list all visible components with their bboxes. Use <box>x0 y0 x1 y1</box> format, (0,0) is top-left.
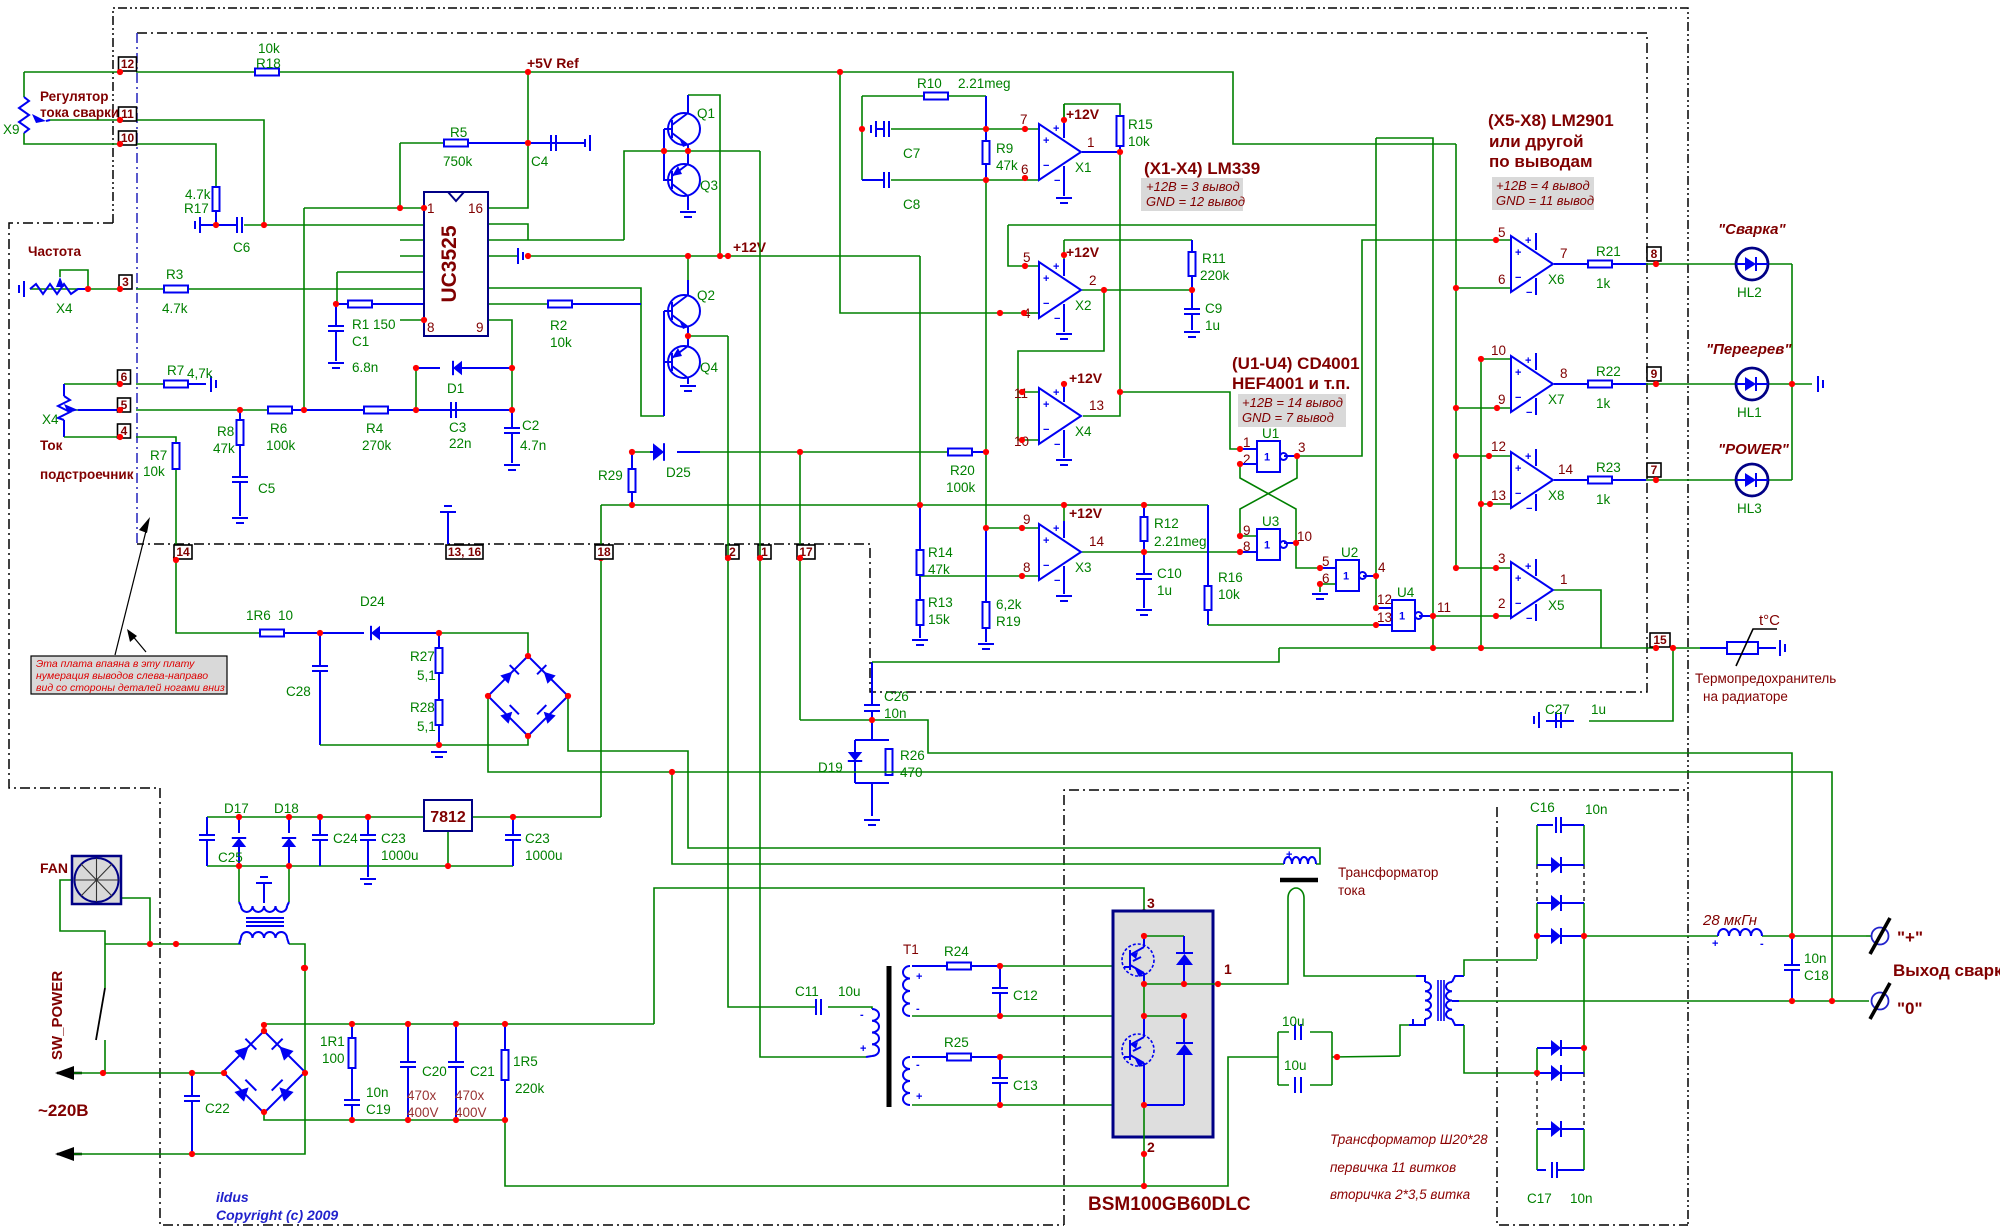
potentiometer X9 <box>19 97 29 133</box>
ground below C10 <box>1136 610 1152 615</box>
capacitor C18 <box>1791 936 1793 965</box>
svg-text:R9: R9 <box>996 141 1013 156</box>
wire C23a leads <box>367 817 369 835</box>
wire transformer primary bottom link <box>1400 1025 1409 1056</box>
output jack plus <box>1866 935 1871 937</box>
ground below R26 D19 <box>864 820 880 825</box>
T1 primary coil <box>872 1009 879 1056</box>
wire X3 pin9 <box>986 527 1039 529</box>
diode stack upper 2 <box>1551 895 1561 911</box>
svg-text:9: 9 <box>1651 367 1658 381</box>
wire D17 D18 7812 input line <box>207 816 424 818</box>
wire main bridge minus bus <box>264 1112 505 1120</box>
svg-text:R2: R2 <box>550 318 567 333</box>
svg-text:U1: U1 <box>1262 426 1279 441</box>
wire small bridge left to zero column <box>488 696 1832 1001</box>
svg-text:Трансформатор Ш20*28: Трансформатор Ш20*28 <box>1330 1132 1488 1147</box>
svg-text:6: 6 <box>1021 162 1029 177</box>
junction dots comparator area <box>598 117 1795 915</box>
svg-text:4.7n: 4.7n <box>520 438 546 453</box>
svg-text:16: 16 <box>468 201 483 216</box>
wire C27 line <box>1589 648 1673 721</box>
svg-text:10n: 10n <box>1585 802 1608 817</box>
wire R27 R28 branch <box>438 633 440 648</box>
connector 17 <box>797 545 815 559</box>
transistor Q1 <box>668 113 700 145</box>
wire X3 output net <box>1082 551 1257 553</box>
svg-text:R12: R12 <box>1154 516 1179 531</box>
svg-text:R6: R6 <box>270 421 287 436</box>
resistor R1 <box>348 301 372 308</box>
wire pin15 pin13 +12V jog <box>488 224 528 240</box>
svg-text:C16: C16 <box>1530 800 1555 815</box>
connector 10 <box>119 131 137 145</box>
wire X4 current pot leads <box>63 384 65 396</box>
svg-text:6,2k: 6,2k <box>996 597 1022 612</box>
svg-text:C11: C11 <box>795 984 819 999</box>
wire X5 output to thermal row <box>1554 590 1601 648</box>
svg-text:+: + <box>1525 235 1531 247</box>
svg-text:R17: R17 <box>184 201 209 216</box>
svg-text:1: 1 <box>1264 540 1270 552</box>
wire Q2 collector stub <box>687 256 689 280</box>
svg-text:5: 5 <box>1023 250 1031 265</box>
diode D1 <box>453 361 462 375</box>
resistor R27 <box>436 648 443 673</box>
svg-text:подстроечник: подстроечник <box>40 467 134 482</box>
svg-text:3: 3 <box>122 275 129 289</box>
connector 1 <box>758 545 771 559</box>
svg-text:(X1-X4) LM339: (X1-X4) LM339 <box>1144 159 1260 178</box>
svg-text:C9: C9 <box>1205 301 1222 316</box>
IC U5 UC3525 <box>424 192 488 336</box>
wire C9 lead <box>1191 290 1193 309</box>
svg-text:+12V: +12V <box>1069 370 1103 386</box>
svg-text:8: 8 <box>1560 366 1568 381</box>
ground right of HL1 <box>1818 376 1823 392</box>
svg-text:-: - <box>1760 938 1764 950</box>
svg-text:11: 11 <box>121 107 134 121</box>
aux transformer <box>239 902 241 906</box>
wire R29 bottom to rail <box>631 492 633 505</box>
svg-text:R3: R3 <box>166 267 183 282</box>
wire 1R5 branch <box>504 1024 506 1050</box>
wire plus rail column <box>1583 936 1585 1048</box>
resistor 1R5 <box>502 1050 509 1080</box>
wire R7 trimmer line conn6 <box>64 383 120 385</box>
svg-text:"Перегрев": "Перегрев" <box>1706 341 1792 358</box>
svg-text:+: + <box>916 971 922 983</box>
svg-text:(U1-U4) CD4001: (U1-U4) CD4001 <box>1232 354 1360 373</box>
svg-text:400V: 400V <box>407 1105 439 1120</box>
svg-text:R29: R29 <box>598 468 623 483</box>
svg-text:C12: C12 <box>1013 988 1038 1003</box>
svg-text:220k: 220k <box>1200 268 1230 283</box>
svg-text:+: + <box>860 1043 866 1055</box>
BSM100GB60DLC module box <box>1113 911 1213 1137</box>
svg-text:C4: C4 <box>531 154 549 169</box>
op-amp X3 <box>1039 524 1081 580</box>
svg-text:X2: X2 <box>1075 298 1092 313</box>
note board soldering note box <box>31 656 227 694</box>
svg-text:X8: X8 <box>1548 488 1565 503</box>
svg-text:R25: R25 <box>944 1035 969 1050</box>
svg-text:10k: 10k <box>258 41 280 56</box>
logic gate U3 <box>1257 529 1280 560</box>
svg-text:U3: U3 <box>1262 514 1279 529</box>
svg-text:6.8n: 6.8n <box>352 360 378 375</box>
svg-text:X6: X6 <box>1548 272 1565 287</box>
wire C10 branch <box>1143 552 1145 574</box>
connector 5 <box>118 398 131 412</box>
resistor R19 <box>983 602 990 628</box>
wire phase output node <box>1144 983 1228 985</box>
resistor R4 <box>364 407 388 414</box>
svg-text:T1: T1 <box>903 942 919 957</box>
svg-text:18: 18 <box>597 545 611 559</box>
wire conn1 column to T1 return <box>759 151 761 558</box>
svg-text:R1 150: R1 150 <box>352 317 396 332</box>
svg-text:400V: 400V <box>455 1105 487 1120</box>
capacitor C6 <box>195 217 200 233</box>
svg-text:+12V: +12V <box>1069 505 1103 521</box>
svg-text:1k: 1k <box>1596 276 1611 291</box>
svg-text:1: 1 <box>427 201 435 216</box>
wire X6 pin6 row <box>1456 287 1511 289</box>
svg-text:2: 2 <box>1498 596 1506 611</box>
wire R8 C5 branch <box>239 410 241 420</box>
wire X7 pin10 row <box>1481 358 1511 360</box>
svg-text:HL1: HL1 <box>1737 405 1762 420</box>
svg-text:13: 13 <box>1491 488 1506 503</box>
frame outer left and bottom border <box>9 223 1688 1225</box>
svg-text:−: − <box>1043 298 1049 310</box>
resistor R18 <box>255 69 279 76</box>
wire X6 output to HL2 <box>1554 263 1588 265</box>
svg-text:D1: D1 <box>447 381 464 396</box>
svg-text:10u: 10u <box>838 984 861 999</box>
svg-text:C6: C6 <box>233 240 250 255</box>
svg-text:13: 13 <box>1089 398 1104 413</box>
wire C23b leads <box>512 817 514 835</box>
svg-text:6: 6 <box>1322 571 1330 586</box>
connector 13 16 <box>446 545 483 559</box>
arrow mains bottom <box>57 1153 82 1156</box>
diode stack lower 2 <box>1551 1065 1561 1081</box>
svg-text:+: + <box>1053 387 1059 399</box>
svg-text:14: 14 <box>1558 462 1574 477</box>
svg-text:2: 2 <box>1089 273 1097 288</box>
svg-text:-: - <box>916 1059 920 1071</box>
transformer T1 core <box>887 966 892 1107</box>
svg-text:1: 1 <box>1343 571 1349 583</box>
svg-text:10: 10 <box>1297 529 1312 544</box>
svg-text:15k: 15k <box>928 612 950 627</box>
svg-text:~220В: ~220В <box>38 1101 89 1120</box>
bridge rectifier small <box>488 656 568 736</box>
wire R24 gate line <box>912 965 947 967</box>
svg-text:C18: C18 <box>1804 968 1829 983</box>
svg-text:−: − <box>1054 575 1060 587</box>
connector 12 <box>119 57 137 71</box>
svg-text:вид со стороны деталей ногами: вид со стороны деталей ногами вниз <box>36 682 225 694</box>
wire IGBT collector net <box>1143 936 1145 947</box>
svg-text:первичка 11 витков: первичка 11 витков <box>1330 1160 1456 1175</box>
svg-text:1R5: 1R5 <box>513 1054 538 1069</box>
svg-text:по выводам: по выводам <box>1489 152 1593 171</box>
svg-text:t°C: t°C <box>1759 612 1780 629</box>
resistor R16 <box>1205 586 1212 610</box>
svg-text:C26: C26 <box>884 689 909 704</box>
wire X2 pin5 net <box>1008 224 1376 226</box>
frame inner PCB card border <box>137 33 1647 692</box>
diode stack upper 3 <box>1551 928 1561 944</box>
svg-text:10k: 10k <box>550 335 572 350</box>
wire X9 to connectors 11 10 <box>50 119 120 121</box>
svg-text:нумерация выводов слева-направ: нумерация выводов слева-направо <box>36 670 208 682</box>
capacitor C13 <box>992 1078 1008 1083</box>
svg-text:C3: C3 <box>449 420 466 435</box>
svg-text:+12V: +12V <box>733 239 767 255</box>
wire X4 freq wiper loop <box>60 270 88 289</box>
svg-text:750k: 750k <box>443 154 473 169</box>
svg-text:4.7k: 4.7k <box>162 301 188 316</box>
wire secondary bottom to lower stack <box>1464 1025 1537 1073</box>
svg-text:C27: C27 <box>1545 702 1570 717</box>
wire D18 leads <box>288 817 290 833</box>
svg-text:+: + <box>1515 573 1521 585</box>
svg-text:7: 7 <box>1020 112 1028 127</box>
svg-text:C2: C2 <box>522 418 539 433</box>
svg-text:5,1: 5,1 <box>417 719 436 734</box>
svg-text:9: 9 <box>1498 392 1506 407</box>
wire conn17 to C26 node <box>800 719 872 721</box>
svg-text:+: + <box>1043 135 1049 147</box>
capacitor C2 <box>504 428 520 433</box>
svg-text:C22: C22 <box>205 1101 230 1116</box>
svg-text:10: 10 <box>278 608 293 623</box>
op-amp X8 <box>1511 452 1553 508</box>
wire X8 pin12 row <box>1456 455 1511 457</box>
resistor R7 trimmer 4.7k <box>164 381 188 388</box>
resistor R23 <box>1588 477 1612 484</box>
svg-text:+: + <box>1043 273 1049 285</box>
wire HL column <box>1791 264 1793 480</box>
svg-text:U4: U4 <box>1397 585 1415 600</box>
resistor R6 <box>268 407 292 414</box>
svg-text:GND = 12 вывод: GND = 12 вывод <box>1146 194 1245 209</box>
svg-text:1u: 1u <box>1205 318 1220 333</box>
transistor Q4 <box>668 346 700 378</box>
svg-text:X4: X4 <box>56 301 73 316</box>
wire aux primary right <box>289 944 305 1073</box>
wire +5V Ref net <box>24 71 120 73</box>
wire mains to switch line <box>105 943 241 945</box>
svg-text:HEF4001 и т.п.: HEF4001 и т.п. <box>1232 374 1350 393</box>
svg-text:9: 9 <box>476 320 484 335</box>
wire X7 output to HL1 <box>1554 383 1588 385</box>
wire 7812 output line <box>472 816 601 818</box>
svg-text:X5: X5 <box>1548 598 1565 613</box>
wire C26 node to plus column <box>872 720 1792 936</box>
svg-text:R5: R5 <box>450 125 467 140</box>
svg-text:1000u: 1000u <box>525 848 563 863</box>
svg-text:1: 1 <box>1224 961 1232 977</box>
diode D24 <box>371 626 380 640</box>
svg-text:C5: C5 <box>258 481 275 496</box>
svg-text:+: + <box>1053 261 1059 273</box>
svg-text:−: − <box>1054 313 1060 325</box>
wire pin9 to D1 C3 <box>488 320 512 410</box>
svg-text:−: − <box>1526 407 1532 419</box>
svg-text:HL2: HL2 <box>1737 285 1762 300</box>
wire C26 D19 R26 branch <box>871 711 873 740</box>
wire +12V rail <box>528 255 920 257</box>
svg-text:−: − <box>1515 392 1521 404</box>
note arrow long <box>115 523 148 655</box>
svg-text:Эта плата впаяна в эту плату: Эта плата впаяна в эту плату <box>36 658 195 670</box>
wire C24 leads <box>319 817 321 835</box>
frame inner PCB card left edge <box>136 33 138 544</box>
svg-text:X1: X1 <box>1075 160 1092 175</box>
upper diode stack rails <box>1536 825 1538 865</box>
wire X2 +12V stub <box>1063 240 1065 262</box>
svg-text:11: 11 <box>1437 600 1451 615</box>
potentiometer X4 current <box>58 396 70 420</box>
ground above connector 13 16 <box>447 512 449 544</box>
resistor R24 <box>947 963 971 970</box>
wire R6 R4 C3 line <box>70 409 120 411</box>
connector 15 <box>1650 633 1670 647</box>
IC 7812 regulator <box>424 800 472 831</box>
wire fan right lead <box>121 898 150 944</box>
svg-text:10u: 10u <box>1282 1014 1305 1029</box>
svg-text:C23: C23 <box>381 831 406 846</box>
wire U1 U3 cross latch <box>1240 456 1297 536</box>
diode stack lower 3 <box>1551 1121 1561 1137</box>
svg-text:R13: R13 <box>928 595 953 610</box>
wire U4 output row to X5 pin2 <box>1419 615 1433 617</box>
wire aux rectifier bottom line <box>207 865 513 867</box>
resistor R8 <box>237 420 244 445</box>
svg-text:220k: 220k <box>515 1081 545 1096</box>
bridge rectifier main <box>223 1031 305 1113</box>
wire R5 C4 pin16 net <box>400 142 444 144</box>
svg-text:Copyright (c) 2009: Copyright (c) 2009 <box>216 1207 338 1223</box>
capacitor C12 <box>992 988 1008 993</box>
svg-text:GND = 11 вывод: GND = 11 вывод <box>1496 193 1594 208</box>
ground below R28 <box>431 752 447 757</box>
wire C6 line to UC3525 pin2 <box>200 224 216 226</box>
wire +12V lower rail <box>601 504 1208 506</box>
svg-text:D18: D18 <box>274 801 299 816</box>
svg-text:12: 12 <box>1491 439 1506 454</box>
resistor R7 10k vertical <box>173 443 180 469</box>
wire OutA to Q2 Q4 bases <box>488 288 664 416</box>
lower diode stack rails <box>1536 1048 1538 1073</box>
ground below Q4 <box>680 386 696 391</box>
svg-text:R7: R7 <box>150 448 167 463</box>
svg-text:−: − <box>1515 272 1521 284</box>
ground below U2 pin6 <box>1312 594 1328 599</box>
wire lower return line <box>912 1104 1144 1106</box>
wire R12 branch <box>1143 505 1145 517</box>
svg-text:+: + <box>1525 561 1531 573</box>
logic gate U1 <box>1257 441 1280 472</box>
connector 11 <box>119 107 137 121</box>
svg-text:D17: D17 <box>224 801 249 816</box>
svg-text:+: + <box>1515 367 1521 379</box>
wire Q2 Q4 output to conn2 column <box>688 335 728 337</box>
snubber capacitor pair 10u <box>1278 1032 1332 1085</box>
svg-text:"POWER": "POWER" <box>1718 441 1790 458</box>
ground below C5 <box>232 518 248 523</box>
svg-text:13: 13 <box>1377 610 1392 625</box>
wire C28 R28 bottom line <box>320 744 439 746</box>
wire R7 to connector 14 <box>175 469 177 558</box>
svg-text:X9: X9 <box>3 122 20 137</box>
svg-text:C17: C17 <box>1527 1191 1552 1206</box>
svg-text:R10: R10 <box>917 76 942 91</box>
svg-text:28 мкГн: 28 мкГн <box>1702 912 1757 929</box>
svg-text:C21: C21 <box>470 1064 495 1079</box>
note arrow short <box>131 634 146 652</box>
wire C25 leads <box>206 817 208 835</box>
wire R11 top <box>1064 239 1192 241</box>
ground below Q3 <box>680 212 696 217</box>
svg-text:+: + <box>1053 123 1059 135</box>
svg-text:R21: R21 <box>1596 244 1621 259</box>
svg-text:"0": "0" <box>1897 999 1923 1018</box>
svg-text:ildus: ildus <box>216 1189 249 1205</box>
svg-text:Частота: Частота <box>28 244 81 259</box>
resistor R15 <box>1117 116 1124 146</box>
wire X4 out feedback row <box>1083 392 1257 449</box>
capacitor C28 <box>312 666 328 671</box>
svg-text:U2: U2 <box>1341 545 1358 560</box>
wire mains bottom line <box>192 1073 305 1154</box>
svg-text:3: 3 <box>1147 895 1155 911</box>
svg-text:1R1: 1R1 <box>320 1034 345 1049</box>
wire Q1 Q3 emitter node to conn1 column <box>688 150 760 152</box>
diode stack lower 1 <box>1551 1040 1561 1056</box>
svg-text:5: 5 <box>1498 225 1506 240</box>
diode D25 <box>653 443 664 461</box>
svg-text:1u: 1u <box>1157 583 1172 598</box>
wire U2 output column <box>1363 575 1376 577</box>
svg-text:+: + <box>1286 849 1292 861</box>
wire aux center tap ground <box>263 884 265 903</box>
connector 6 <box>118 370 131 384</box>
svg-text:R23: R23 <box>1596 460 1621 475</box>
junction dots bottom <box>100 555 1835 1189</box>
connector 3 <box>119 275 132 289</box>
svg-text:Термопредохранитель: Термопредохранитель <box>1695 671 1836 686</box>
switch SW_POWER <box>96 988 105 1040</box>
connector 9 <box>1647 367 1661 381</box>
wire switch top <box>104 944 106 988</box>
svg-text:R22: R22 <box>1596 364 1621 379</box>
resistor R26 <box>886 749 893 775</box>
capacitor C23b <box>505 835 521 840</box>
svg-text:Регулятор: Регулятор <box>40 89 109 104</box>
current transformer <box>1284 857 1316 864</box>
wire C12 branch <box>999 966 1001 988</box>
op-amp X1 <box>1039 124 1081 180</box>
arrow mains top <box>57 1072 82 1075</box>
svg-text:−: − <box>1054 175 1060 187</box>
svg-text:2: 2 <box>1147 1139 1155 1155</box>
